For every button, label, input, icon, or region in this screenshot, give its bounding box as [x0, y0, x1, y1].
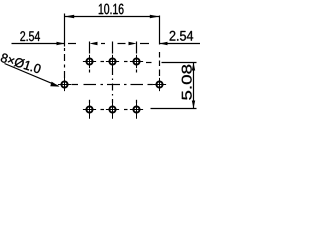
- arrow 2.54 left inner (tip at c2): [90, 42, 98, 45]
- hole pad bottom row 3 (c4,r2): [130, 103, 143, 119]
- dimension text 5.08 rotated: [182, 65, 192, 100]
- hole pad top row 2 (c3,r1): [106, 55, 119, 68]
- arrow 2.54 left outer (tip at c1): [57, 42, 65, 45]
- hole pad bottom row 1 (c2,r2): [83, 103, 96, 119]
- wire extension line top row to 5.08 dim: [162, 62, 197, 64]
- wire centerline dash between c1 and c2: [68, 43, 76, 45]
- wire top row centerline dash right of c4: [146, 62, 152, 64]
- wire extension line right (x=159.5): [159, 16, 161, 45]
- wire centerline stub below top c2: [89, 70, 91, 73]
- label text 8xO1.0: [0, 53, 41, 74]
- wire bottom row centerline dash between c3-c4: [124, 109, 128, 111]
- wire vertical centerline top c4: [136, 42, 138, 54]
- arrow 2.54 right inner (tip at c4): [129, 42, 137, 45]
- wire leader line for 8xO1.0: [5, 64, 59, 87]
- wire dimension line 2.54 left solid under text: [12, 43, 65, 45]
- wire dashed centerline c5 vertical: [159, 52, 161, 76]
- wire dimension line 5.08 vertical: [193, 63, 195, 109]
- wire dashed horizontal centerline middle row y=84.5: [72, 84, 79, 86]
- wire extension line left (x=64.5 from 10.16 dim down): [64, 14, 66, 47]
- hole pad circles: ring + crosshairs: [58, 55, 166, 119]
- hole pad bottom row 2 (c3,r2): [106, 103, 119, 119]
- wire centerline stub above bottom c2: [89, 100, 91, 103]
- wire bottom row centerline dash between c2-c3: [101, 109, 105, 111]
- wire dimension line 10.16: [65, 16, 160, 18]
- wire vertical centerline top c2: [89, 42, 91, 54]
- wire centerline stub above bottom c4: [136, 100, 138, 103]
- arrow 10.16 left: [65, 15, 75, 19]
- arrow leader tip at hole 1: [50, 82, 59, 87]
- wire top row centerline dash between c2-c3: [101, 61, 105, 63]
- arrow 10.16 right: [150, 15, 160, 19]
- hole pad top row 1 (c2,r1): [83, 55, 96, 68]
- hole pad middle left (c1,rm): [58, 78, 71, 91]
- wire top row centerline dash between c3-c4: [124, 61, 128, 63]
- arrow 5.08 bottom: [192, 101, 195, 109]
- wire vertical centerline top c3: [112, 42, 114, 54]
- wire centerline stub below top c4: [136, 70, 138, 73]
- wire dimension line 2.54 right solid under text: [160, 43, 201, 45]
- wire dashed centerline c3 vertical between rows: [112, 68, 114, 103]
- dimension text 2.54 right: [170, 31, 194, 41]
- wire dashed centerline c1 vertical: [64, 48, 66, 78]
- dimension text 10.16: [99, 4, 124, 15]
- arrow 5.08 top: [192, 63, 195, 71]
- hole pad top row 3 (c4,r1): [130, 55, 143, 68]
- arrow 2.54 right outer (tip at c5): [160, 42, 168, 45]
- wire centerline dash between c4 and c5: [140, 43, 149, 45]
- hole pad middle right (c5,rm): [153, 78, 166, 91]
- dimension text 2.54 left: [20, 31, 40, 41]
- wire centerline dashes middle: [101, 43, 105, 45]
- wire extension line bottom row to 5.08 dim: [151, 108, 197, 110]
